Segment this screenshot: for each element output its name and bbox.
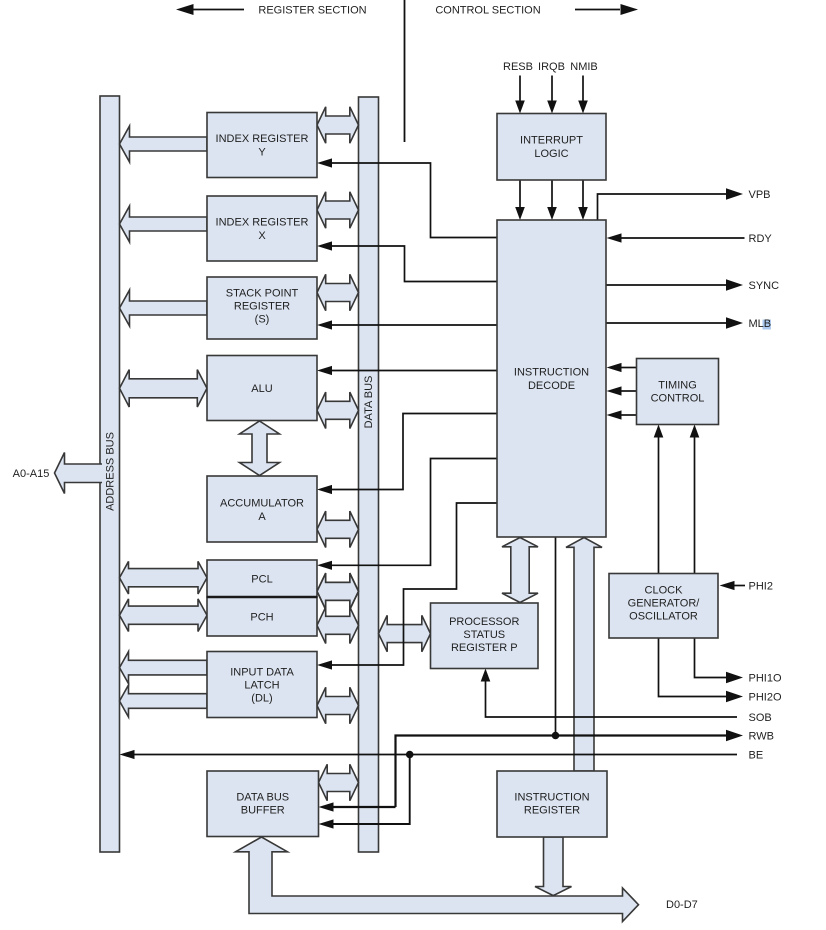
bus arrow: index register X to address bus (120, 206, 208, 242)
svg-text:RWB: RWB (749, 731, 774, 743)
block processor status register P (431, 603, 539, 669)
A0-A15 address output arrow (55, 453, 103, 494)
wire instruction decode to input data latch (330, 503, 497, 665)
svg-text:TIMINGCONTROL: TIMINGCONTROL (651, 380, 705, 405)
block stack point register S (207, 277, 317, 339)
svg-text:IRQB: IRQB (538, 61, 565, 73)
block index register X (207, 196, 317, 261)
svg-text:DATA BUSBUFFER: DATA BUSBUFFER (236, 792, 289, 817)
svg-text:PCH: PCH (250, 612, 273, 624)
bus arrow: instruction register to data bus (down) (535, 837, 572, 896)
label MLB highlight on B (763, 320, 771, 330)
wire SOB input to processor status register (486, 681, 738, 717)
wire instruction decode to accumulator (330, 414, 497, 490)
wire interrupt input RESB (519, 76, 521, 102)
svg-text:PHI2: PHI2 (749, 581, 773, 593)
block index register Y (207, 113, 317, 178)
wire interrupt input NMIB (582, 76, 584, 102)
svg-text:RESB: RESB (503, 61, 533, 73)
bus arrow: input data latch to address bus (upper) (120, 652, 208, 684)
bus arrow: instruction decode to processor status register (vertical) (502, 538, 538, 603)
wire clock generator to timing control (2) (694, 437, 696, 574)
bus arrow: index register X to data bus (bidirectional) (317, 192, 359, 228)
wire instruction decode to RWB (555, 537, 557, 736)
block timing control (637, 359, 719, 425)
block interrupt logic (497, 114, 606, 181)
wire RWB output (396, 736, 729, 808)
wire VPB output (598, 194, 729, 220)
PCL/PCH divider (bold) (207, 596, 317, 599)
svg-text:DATA BUS: DATA BUS (363, 376, 375, 429)
wire RDY input (619, 237, 745, 239)
wire interrupt logic to instruction decode (1) (519, 180, 521, 208)
bus arrow: stack pointer to address bus (120, 290, 208, 326)
bus arrow: ALU to data bus (bidirectional) (317, 392, 359, 428)
svg-text:A0-A15: A0-A15 (13, 468, 50, 480)
svg-text:INSTRUCTIONREGISTER: INSTRUCTIONREGISTER (514, 792, 589, 817)
wire interrupt input IRQB (551, 76, 553, 102)
wire interrupt logic to instruction decode (2) (551, 180, 553, 208)
bus arrow: PCH to data bus (bidirectional) (317, 607, 359, 643)
block instruction register (497, 771, 607, 837)
wire instruction decode to ALU (330, 370, 497, 372)
svg-text:ADDRESS BUS: ADDRESS BUS (105, 432, 117, 511)
bus arrow: instruction register to instruction decode (up) (566, 538, 602, 772)
block PCH (207, 597, 317, 636)
wire instruction decode to index register Y (330, 163, 497, 238)
svg-text:SOB: SOB (749, 712, 772, 724)
svg-text:D0-D7: D0-D7 (666, 899, 698, 911)
bus arrow: stack pointer to data bus (bidirectional) (317, 274, 359, 310)
register section arrow (left) (193, 9, 244, 11)
bus arrow: PCL to address bus (bidirectional) (120, 561, 208, 594)
control section arrow (right) (575, 9, 620, 11)
svg-text:BE: BE (749, 750, 764, 762)
bus arrow: data bus buffer to data bus (bidirectional) (319, 764, 359, 800)
block data bus buffer (207, 771, 319, 837)
junction RWB (552, 732, 560, 740)
bus arrow: input data latch to address bus (lower) (120, 685, 208, 717)
wire instruction decode to stack pointer (330, 324, 497, 326)
wire MLB output (607, 322, 729, 324)
block ALU (207, 356, 317, 421)
bus arrow: PCL to data bus (bidirectional) (317, 573, 359, 609)
svg-text:SYNC: SYNC (749, 280, 780, 292)
svg-text:RDY: RDY (749, 233, 773, 245)
bus arrow: input data latch to data bus (bidirectional) (317, 687, 359, 723)
svg-text:PCL: PCL (251, 574, 272, 586)
svg-text:MLB: MLB (749, 318, 772, 330)
svg-text:REGISTER SECTION: REGISTER SECTION (258, 5, 366, 17)
bus arrow: index register Y to address bus (120, 126, 208, 162)
wire PHI2 input (733, 585, 745, 587)
wire timing control to instruction decode (3) (621, 414, 637, 416)
block clock generator / oscillator (609, 574, 718, 639)
wire BE to data bus buffer (333, 755, 410, 825)
wire timing control to instruction decode (1) (621, 367, 637, 369)
junction BE (406, 751, 414, 759)
D0-D7 data bus path with data bus buffer arrow (236, 837, 639, 922)
wire PHI2O output (659, 638, 729, 697)
wire SYNC output (607, 284, 729, 286)
block input data latch DL (207, 652, 317, 718)
block instruction decode (497, 220, 606, 537)
address bus bar (100, 96, 120, 852)
bus arrow: processor status register to data bus (bidirectional) (379, 615, 431, 651)
svg-text:NMIB: NMIB (570, 61, 598, 73)
wire interrupt logic to instruction decode (3) (582, 180, 584, 208)
bus arrow: ALU to accumulator (bidirectional, vertical) (240, 421, 280, 476)
svg-text:PHI2O: PHI2O (749, 692, 782, 704)
wire BE input (134, 754, 738, 756)
wire instruction decode to PCL (330, 459, 497, 566)
wire clock generator to timing control (1) (658, 437, 660, 574)
block accumulator A (207, 476, 317, 542)
wire instruction decode to index register X (330, 246, 497, 282)
svg-text:VPB: VPB (749, 189, 771, 201)
bus arrow: ALU to address bus (bidirectional) (120, 370, 208, 407)
wire timing control to instruction decode (2) (621, 390, 637, 392)
svg-text:CONTROL SECTION: CONTROL SECTION (435, 5, 540, 17)
section divider line (404, 0, 406, 142)
bus arrow: PCL to data bus outline overdraw (317, 573, 359, 609)
block PCL (207, 560, 317, 597)
svg-text:PHI1O: PHI1O (749, 673, 782, 685)
bus arrow: accumulator to data bus (bidirectional) (317, 511, 359, 547)
bus arrow: PCH to address bus (bidirectional) (120, 599, 208, 632)
wire PHI1O output (695, 638, 729, 678)
data bus bar (359, 97, 379, 852)
wire RWB to data bus buffer (333, 806, 396, 808)
svg-text:ALU: ALU (251, 383, 272, 395)
bus arrow: index register Y to data bus (bidirectional) (317, 107, 359, 143)
